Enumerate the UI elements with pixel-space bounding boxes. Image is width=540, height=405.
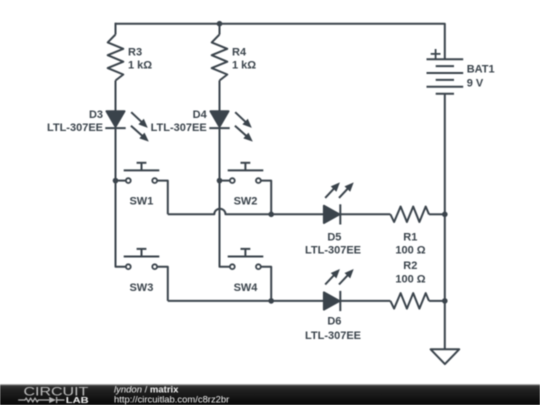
- svg-text:1 kΩ: 1 kΩ: [232, 59, 256, 71]
- svg-text:http://circuitlab.com/c8rz2br: http://circuitlab.com/c8rz2br: [114, 394, 229, 405]
- svg-text:D3: D3: [89, 109, 103, 121]
- node SW1 junction: [113, 178, 119, 184]
- LED D6: [324, 269, 354, 311]
- wire R2 to rail: [429, 300, 445, 302]
- svg-text:9 V: 9 V: [467, 78, 484, 90]
- svg-text:D4: D4: [193, 109, 208, 121]
- node row1 junction: [268, 212, 274, 218]
- svg-text:SW2: SW2: [234, 195, 258, 207]
- ground: [431, 349, 460, 364]
- wire right rail: [444, 94, 446, 350]
- node R2 rail junction: [442, 298, 448, 304]
- wire column1 top: [115, 23, 117, 35]
- LED D5: [324, 182, 354, 224]
- wire SW1 out: [158, 181, 168, 215]
- switch SW4: [228, 249, 264, 269]
- wire R1 to rail: [429, 213, 445, 215]
- wire R3 to D3: [115, 81, 117, 112]
- svg-text:LTL-307EE: LTL-307EE: [47, 122, 103, 134]
- switch SW3: [124, 249, 160, 269]
- resistor R2: [390, 293, 429, 309]
- node row2 junction: [268, 298, 274, 304]
- wire row2: [168, 300, 324, 302]
- wire column2 top: [219, 23, 221, 35]
- resistor R3: [108, 35, 124, 81]
- svg-text:100 Ω: 100 Ω: [395, 274, 425, 286]
- wire SW4 out: [261, 267, 271, 301]
- resistor R4: [212, 35, 228, 81]
- wire SW2 out: [261, 181, 271, 215]
- footer bar: [0, 384, 540, 405]
- svg-text:LTL-307EE: LTL-307EE: [151, 122, 207, 134]
- battery BAT1: [427, 59, 464, 93]
- svg-text:SW1: SW1: [129, 195, 153, 207]
- svg-text:R3: R3: [128, 46, 142, 58]
- svg-text:R4: R4: [232, 46, 247, 58]
- svg-text:SW4: SW4: [234, 282, 259, 294]
- svg-text:LTL-307EE: LTL-307EE: [305, 244, 361, 256]
- svg-text:D5: D5: [327, 232, 341, 244]
- wire D4 to SW4 row: [220, 128, 230, 267]
- LED D4: [209, 111, 253, 141]
- svg-text:1 kΩ: 1 kΩ: [128, 59, 152, 71]
- wire D6 to R2: [340, 300, 390, 302]
- svg-text:LTL-307EE: LTL-307EE: [305, 330, 361, 342]
- svg-text:R1: R1: [403, 232, 417, 244]
- wire R4 to D4: [219, 81, 221, 112]
- svg-text:SW3: SW3: [129, 282, 153, 294]
- wire D5 to R1: [340, 213, 390, 215]
- logo schematic line: [18, 397, 64, 403]
- svg-text:LAB: LAB: [66, 395, 89, 405]
- LED D3: [105, 111, 149, 141]
- switch SW2: [220, 163, 264, 183]
- wire top rail: [116, 24, 445, 60]
- wire SW3 out: [158, 267, 168, 301]
- resistor R1: [390, 207, 429, 223]
- wire D3 to SW3 row: [116, 128, 126, 267]
- switch SW1: [116, 163, 160, 183]
- node top junction: [217, 21, 223, 27]
- svg-text:BAT1: BAT1: [467, 63, 495, 75]
- battery plus sign: [431, 49, 441, 59]
- node SW2 junction: [217, 178, 223, 184]
- svg-text:R2: R2: [403, 260, 417, 272]
- wire row1 with hop: [168, 209, 324, 215]
- svg-text:D6: D6: [327, 316, 341, 328]
- svg-text:100 Ω: 100 Ω: [395, 244, 425, 256]
- node R1 rail junction: [442, 212, 448, 218]
